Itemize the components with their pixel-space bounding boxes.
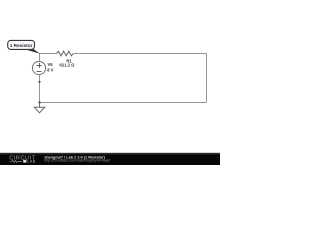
CircuitLab logo [9,156,36,164]
wire node A to V6 top pin [39,54,41,62]
svg-text:621.2 Ω: 621.2 Ω [60,62,76,67]
footer bar [0,153,220,165]
ground [34,103,45,113]
junction dot bottom node B [38,101,40,103]
junction dot V6 bottom pin [38,81,40,83]
voltage source V6 [32,61,45,74]
wire R1 right terminal to top-right corner [73,53,206,55]
wire right side vertical [206,54,208,103]
svg-text:1 Resistor: 1 Resistor [10,43,33,48]
svg-text:8 V: 8 V [47,67,53,72]
svg-text:http://circuitlab.com/c/abk3ng: http://circuitlab.com/c/abk3ngdny9bmwqrt [44,159,110,163]
resistor R1 [57,51,74,56]
svg-text:V6: V6 [48,62,54,67]
wire V6 bottom pin to bottom node [39,75,41,103]
wire bottom horizontal [39,102,207,104]
annotation flag "1 Resistor" pointing to node A [8,40,40,53]
svg-text:LAB: LAB [27,160,35,164]
wire node A to resistor R1 left terminal [39,53,57,55]
